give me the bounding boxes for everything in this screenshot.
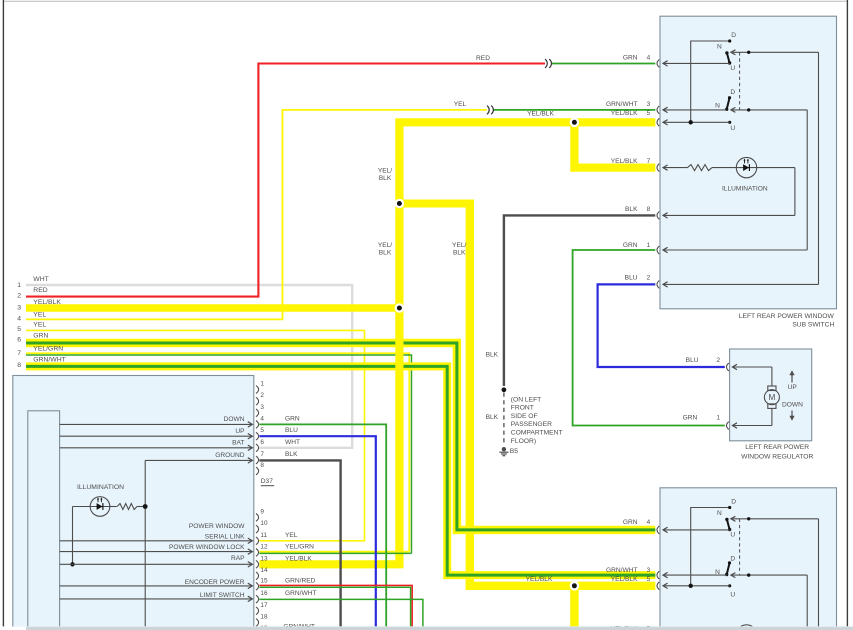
svg-text:YEL/: YEL/: [378, 168, 392, 175]
svg-text:GROUND: GROUND: [215, 452, 245, 459]
svg-text:YEL: YEL: [33, 311, 46, 318]
svg-text:8: 8: [17, 362, 21, 369]
svg-text:BLK: BLK: [453, 249, 466, 256]
svg-text:BLU: BLU: [285, 427, 298, 434]
svg-text:YEL/BLK: YEL/BLK: [611, 110, 638, 117]
svg-text:YEL/BLK: YEL/BLK: [526, 576, 553, 583]
svg-text:2: 2: [260, 392, 264, 399]
svg-text:GRN: GRN: [623, 242, 638, 249]
svg-text:GRN/WHT: GRN/WHT: [33, 356, 65, 363]
svg-text:RED: RED: [476, 55, 490, 62]
svg-text:17: 17: [260, 602, 268, 609]
svg-text:6: 6: [17, 337, 21, 344]
svg-text:UP: UP: [235, 428, 245, 435]
svg-text:FRONT: FRONT: [511, 405, 534, 412]
svg-text:4: 4: [17, 316, 21, 323]
svg-text:18: 18: [260, 614, 268, 621]
svg-text:YEL: YEL: [33, 322, 46, 329]
svg-text:ILLUMINATION: ILLUMINATION: [722, 185, 768, 192]
svg-text:3: 3: [647, 101, 651, 108]
svg-text:N: N: [715, 569, 720, 576]
svg-text:16: 16: [260, 590, 268, 597]
svg-text:1: 1: [260, 381, 264, 388]
svg-text:5: 5: [260, 427, 264, 434]
svg-text:M: M: [768, 393, 775, 402]
svg-text:8: 8: [260, 462, 264, 469]
svg-text:YEL/BLK: YEL/BLK: [33, 299, 61, 306]
svg-text:FLOOR): FLOOR): [511, 438, 536, 445]
svg-text:D: D: [730, 555, 735, 562]
svg-text:BLK: BLK: [285, 451, 298, 458]
svg-text:U: U: [730, 531, 735, 538]
svg-text:GRN: GRN: [33, 333, 48, 340]
svg-text:LIMIT SWITCH: LIMIT SWITCH: [200, 592, 245, 599]
svg-text:5: 5: [647, 576, 651, 583]
svg-text:2: 2: [647, 275, 651, 282]
svg-text:YEL/BLK: YEL/BLK: [611, 576, 638, 583]
svg-text:YEL/GRN: YEL/GRN: [285, 543, 314, 550]
svg-text:RED: RED: [33, 287, 47, 294]
svg-text:D37: D37: [261, 478, 273, 485]
svg-text:WINDOW REGULATOR: WINDOW REGULATOR: [741, 454, 813, 461]
svg-text:YEL/BLK: YEL/BLK: [527, 110, 554, 117]
svg-text:YEL/BLK: YEL/BLK: [611, 158, 638, 165]
svg-text:LEFT REAR POWER WINDOW: LEFT REAR POWER WINDOW: [739, 313, 835, 320]
svg-text:10: 10: [260, 520, 268, 527]
svg-text:RAP: RAP: [231, 555, 245, 562]
svg-text:BLU: BLU: [686, 357, 699, 364]
svg-text:GRN/RED: GRN/RED: [285, 577, 316, 584]
svg-text:BLK: BLK: [486, 414, 499, 421]
svg-text:3: 3: [260, 404, 264, 411]
svg-text:GRN/WHT: GRN/WHT: [285, 590, 317, 597]
svg-text:D: D: [731, 32, 736, 39]
svg-text:BLU: BLU: [625, 275, 638, 282]
svg-text:12: 12: [260, 543, 268, 550]
svg-text:DOWN: DOWN: [782, 402, 803, 409]
svg-text:BLK: BLK: [625, 206, 638, 213]
svg-text:1: 1: [17, 282, 21, 289]
svg-text:BLK: BLK: [379, 175, 392, 182]
svg-text:SERIAL LINK: SERIAL LINK: [205, 534, 245, 541]
svg-text:1: 1: [647, 242, 651, 249]
svg-text:2: 2: [717, 357, 721, 364]
svg-text:GRN/WHT: GRN/WHT: [606, 101, 638, 108]
svg-text:GRN: GRN: [683, 415, 698, 422]
svg-text:N: N: [717, 510, 722, 517]
svg-text:YEL: YEL: [285, 532, 298, 539]
svg-text:(ON LEFT: (ON LEFT: [511, 396, 541, 403]
svg-text:U: U: [730, 125, 735, 132]
svg-text:YEL/: YEL/: [378, 242, 392, 249]
svg-text:D: D: [730, 89, 735, 96]
svg-text:YEL/BLK: YEL/BLK: [285, 555, 312, 562]
svg-text:8: 8: [647, 206, 651, 213]
svg-text:11: 11: [260, 532, 267, 539]
svg-text:4: 4: [647, 519, 651, 526]
svg-text:7: 7: [260, 451, 264, 458]
svg-text:N: N: [717, 43, 722, 50]
svg-text:BAT: BAT: [232, 440, 244, 447]
svg-text:SIDE OF: SIDE OF: [511, 413, 538, 420]
svg-text:POWER WINDOW LOCK: POWER WINDOW LOCK: [169, 544, 245, 551]
svg-text:DOWN: DOWN: [224, 416, 245, 423]
svg-text:9: 9: [260, 508, 264, 515]
svg-text:7: 7: [647, 158, 651, 165]
svg-text:4: 4: [647, 54, 651, 61]
svg-text:GRN: GRN: [285, 415, 300, 422]
svg-text:YEL: YEL: [454, 101, 467, 108]
svg-text:POWER WINDOW: POWER WINDOW: [189, 523, 245, 530]
svg-text:ENCODER POWER: ENCODER POWER: [185, 579, 245, 586]
svg-text:WHT: WHT: [285, 439, 300, 446]
svg-text:7: 7: [17, 350, 21, 357]
svg-text:B5: B5: [510, 448, 518, 455]
svg-text:15: 15: [260, 577, 268, 584]
svg-text:2: 2: [17, 292, 21, 299]
svg-text:ILLUMINATION: ILLUMINATION: [77, 484, 124, 491]
svg-text:UP: UP: [788, 384, 798, 391]
svg-text:5: 5: [17, 326, 21, 333]
svg-text:13: 13: [260, 555, 268, 562]
svg-text:U: U: [730, 591, 735, 598]
svg-text:BLK: BLK: [486, 352, 499, 359]
svg-text:BLK: BLK: [379, 249, 392, 256]
svg-text:1: 1: [717, 415, 721, 422]
svg-text:GRN: GRN: [623, 54, 638, 61]
svg-text:YEL/GRN: YEL/GRN: [33, 346, 63, 353]
svg-text:PASSENGER: PASSENGER: [511, 421, 552, 428]
svg-text:SUB SWITCH: SUB SWITCH: [792, 322, 834, 329]
svg-text:GRN/WHT: GRN/WHT: [606, 567, 638, 574]
svg-text:5: 5: [647, 110, 651, 117]
svg-text:3: 3: [17, 305, 21, 312]
svg-text:6: 6: [260, 439, 264, 446]
svg-text:4: 4: [260, 415, 264, 422]
svg-text:WHT: WHT: [33, 276, 48, 283]
svg-text:COMPARTMENT: COMPARTMENT: [511, 430, 563, 437]
svg-text:GRN: GRN: [623, 519, 638, 526]
svg-text:14: 14: [260, 567, 268, 574]
svg-text:U: U: [730, 65, 735, 72]
svg-text:N: N: [715, 103, 720, 110]
svg-text:D: D: [731, 499, 736, 506]
svg-text:YEL/: YEL/: [452, 242, 466, 249]
svg-text:LEFT REAR POWER: LEFT REAR POWER: [745, 444, 809, 451]
svg-text:3: 3: [647, 567, 651, 574]
